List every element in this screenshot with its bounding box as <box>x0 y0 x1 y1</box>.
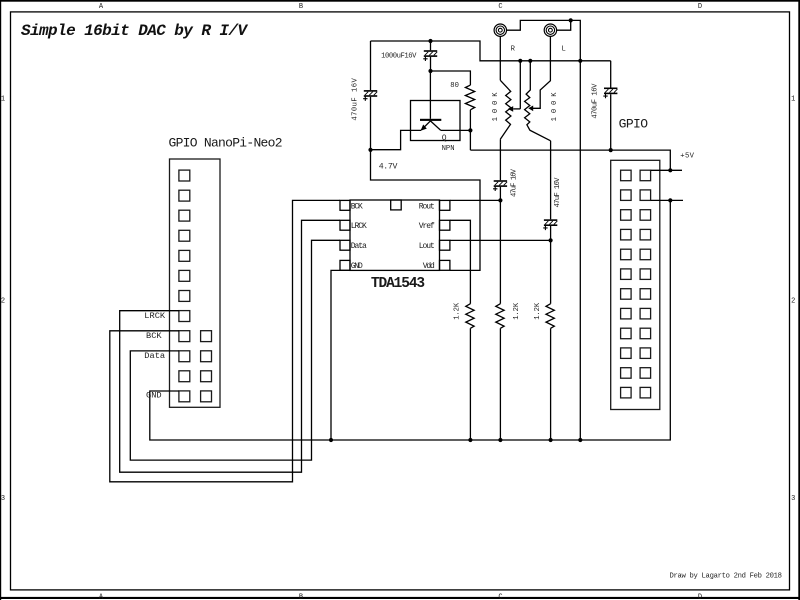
wire BCK <box>110 200 340 481</box>
wire emitter to 4.7V node <box>371 130 422 149</box>
svg-text:470uF 16V: 470uF 16V <box>352 78 360 121</box>
transistor Q NPN <box>411 71 461 153</box>
svg-text:Lout: Lout <box>419 242 435 251</box>
svg-text:Draw by Lagarto 2nd Feb 2018: Draw by Lagarto 2nd Feb 2018 <box>670 573 783 581</box>
svg-text:D: D <box>698 593 702 600</box>
svg-text:B: B <box>299 593 303 600</box>
svg-text:TDA1543: TDA1543 <box>371 276 425 292</box>
wire jack L shell <box>557 20 571 30</box>
chip U1 TDA1543 <box>340 200 450 292</box>
capacitor C3 470uF 16V <box>592 61 618 150</box>
svg-text:3: 3 <box>791 495 795 503</box>
svg-text:Simple 16bit DAC by R I/V: Simple 16bit DAC by R I/V <box>21 22 248 40</box>
svg-text:BCK: BCK <box>351 202 363 211</box>
svg-text:47uF 16V: 47uF 16V <box>510 168 518 197</box>
wire Rout <box>450 199 501 201</box>
potentiometer VR2 100K <box>525 61 559 141</box>
wire 4.7V supply to Vdd <box>371 150 481 271</box>
wire GND from NanoPi <box>150 391 331 440</box>
svg-text:2: 2 <box>1 298 5 306</box>
svg-text:GPIO: GPIO <box>619 117 649 132</box>
svg-text:Data: Data <box>351 242 367 251</box>
svg-text:BCK: BCK <box>146 331 162 341</box>
svg-text:3: 3 <box>1 495 5 503</box>
capacitor C4 47uF 16V <box>493 139 518 200</box>
resistor R2 1.2K <box>496 302 521 440</box>
wire jack L signal to wiper <box>528 36 550 111</box>
wire ground bus <box>331 200 670 440</box>
svg-text:LRCK: LRCK <box>351 222 367 231</box>
svg-text:Vref: Vref <box>419 222 435 231</box>
rca jack R <box>494 24 516 53</box>
wire jack R signal <box>499 36 501 80</box>
wire pot R wiper to ground <box>519 61 521 109</box>
svg-text:D: D <box>698 3 702 11</box>
resistor R4 1.2K <box>534 302 554 440</box>
svg-text:L: L <box>562 45 566 53</box>
svg-text:Q: Q <box>442 134 447 143</box>
wire Lout node to R4 <box>550 240 552 303</box>
wire Data <box>130 240 340 460</box>
wire Rout node to R2 <box>499 200 501 303</box>
svg-text:LRCK: LRCK <box>144 311 166 321</box>
capacitor C1 1000uF16V <box>381 41 437 71</box>
rca jack L <box>544 24 566 53</box>
svg-text:+5V: +5V <box>680 153 694 161</box>
ground rail top <box>371 41 611 61</box>
svg-text:4.7V: 4.7V <box>379 162 398 171</box>
wire +5V pin stub <box>651 169 682 171</box>
svg-text:1000uF16V: 1000uF16V <box>381 53 417 61</box>
wire GND pin stub <box>651 199 683 201</box>
svg-text:1: 1 <box>791 96 795 104</box>
svg-text:1.2K: 1.2K <box>534 302 542 320</box>
wire jack shells to ground rail <box>571 20 581 440</box>
resistor R1 80 <box>450 82 474 130</box>
svg-text:Data: Data <box>144 351 165 361</box>
svg-text:470uF 16V: 470uF 16V <box>592 83 600 119</box>
svg-text:Rout: Rout <box>419 202 435 211</box>
svg-text:2: 2 <box>791 298 795 306</box>
wire base node to R1 <box>431 71 471 85</box>
svg-text:GND: GND <box>351 262 363 271</box>
svg-text:1: 1 <box>1 96 5 104</box>
capacitor C5 47uF 16V <box>543 141 562 241</box>
potentiometer VR1 100K <box>492 80 520 139</box>
svg-text:B: B <box>299 3 303 11</box>
wire Lout <box>450 239 551 241</box>
svg-text:1.2K: 1.2K <box>513 302 521 320</box>
svg-text:GND: GND <box>146 390 162 400</box>
wire +5V bus <box>470 150 670 170</box>
svg-text:80: 80 <box>450 82 459 90</box>
wire collector to +5V <box>441 130 471 150</box>
connector J1 GPIO NanoPi-Neo2 <box>169 136 283 408</box>
svg-text:NPN: NPN <box>442 145 455 153</box>
svg-text:47uF 16V: 47uF 16V <box>554 177 562 208</box>
capacitor C2 470uF 16V <box>352 41 378 150</box>
wire jack R shell <box>507 20 571 30</box>
svg-text:Vdd: Vdd <box>423 262 435 271</box>
svg-text:GPIO NanoPi-Neo2: GPIO NanoPi-Neo2 <box>169 136 283 151</box>
wire Vref <box>450 220 471 303</box>
wire LRCK <box>120 220 340 472</box>
wire GND riser to chip <box>331 270 350 440</box>
svg-text:1.2K: 1.2K <box>453 302 461 320</box>
svg-text:R: R <box>511 45 516 53</box>
svg-text:C: C <box>498 3 502 11</box>
svg-text:C: C <box>498 593 502 600</box>
resistor R3 1.2K <box>453 302 474 440</box>
connector J2 GPIO <box>611 117 660 410</box>
